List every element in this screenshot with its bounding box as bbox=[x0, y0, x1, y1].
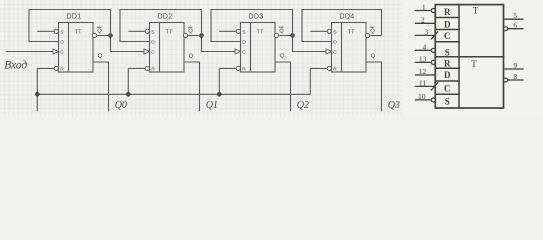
svg-text:C: C bbox=[151, 50, 155, 56]
svg-text:DD2: DD2 bbox=[158, 13, 173, 20]
output pin 8 wire bbox=[508, 79, 523, 81]
graph-paper background bbox=[0, 0, 543, 117]
Q output wire DD3 down to Q2 terminal bbox=[275, 62, 291, 111]
R input wire DD3 bbox=[219, 67, 236, 69]
S input inversion bubble DD2 bbox=[145, 29, 149, 33]
svg-text:3: 3 bbox=[424, 28, 428, 37]
D flip-flop DD2 bbox=[120, 10, 235, 112]
svg-text:Q: Q bbox=[97, 29, 102, 35]
S input stub wire DD4 bbox=[310, 30, 327, 32]
inverted output Q̄ bubble DD1 bbox=[92, 33, 96, 37]
S input stub wire DD3 bbox=[219, 30, 236, 32]
R wire down to reset bus DD1 bbox=[36, 68, 38, 111]
Q̄ output wire DD4 bbox=[370, 35, 381, 37]
svg-text:6: 6 bbox=[513, 21, 517, 30]
svg-text:T: T bbox=[471, 60, 477, 70]
svg-text:R: R bbox=[444, 7, 451, 17]
IC package symbol U1 (dual T flip-flop) bbox=[416, 3, 524, 108]
flip-flop body box DD3 bbox=[241, 23, 276, 73]
C dynamic input triangle DD2 bbox=[144, 49, 150, 54]
inverted output Q̄ bubble DD2 bbox=[183, 33, 187, 37]
svg-text:Q1: Q1 bbox=[206, 100, 218, 111]
svg-text:TT: TT bbox=[166, 29, 174, 35]
svg-text:Q2: Q2 bbox=[297, 100, 309, 111]
svg-text:4: 4 bbox=[422, 42, 426, 51]
feedback wire Q̄ to D (top loop) DD1 bbox=[29, 10, 111, 42]
svg-text:C: C bbox=[444, 31, 451, 41]
Q output wire DD1 down to Q0 terminal bbox=[93, 62, 109, 111]
svg-text:D: D bbox=[242, 40, 246, 46]
input pin 10 wire bbox=[416, 99, 434, 101]
svg-text:DD3: DD3 bbox=[249, 13, 264, 20]
svg-text:R: R bbox=[333, 67, 337, 73]
inverted output Q̄ bubble DD4 bbox=[365, 33, 369, 37]
pin-column divider DD1 bbox=[68, 23, 70, 73]
divider C2/S2 bbox=[435, 93, 459, 95]
C dynamic input triangle DD3 bbox=[235, 49, 241, 54]
IC section divider between T1 and T2 bbox=[435, 56, 503, 58]
input pin 1 inversion bubble bbox=[431, 9, 435, 13]
svg-text:C: C bbox=[333, 50, 337, 56]
divider R1/D1 bbox=[435, 17, 459, 19]
svg-text:1: 1 bbox=[422, 3, 426, 12]
wire Q̄ DD3 to C input DD4 bbox=[293, 36, 327, 52]
svg-text:S: S bbox=[445, 47, 450, 57]
svg-text:R: R bbox=[60, 67, 64, 73]
svg-text:Q: Q bbox=[98, 54, 103, 60]
input pin 13 wire bbox=[416, 61, 434, 63]
input pin 2 wire bbox=[416, 22, 436, 24]
svg-text:C: C bbox=[444, 83, 451, 93]
flip-flop body box DD2 bbox=[150, 23, 185, 73]
feedback wire Q̄ to D (top loop) DD4 bbox=[302, 10, 382, 42]
divider R2/D2 bbox=[435, 67, 459, 69]
input pin 1 wire bbox=[416, 10, 434, 12]
junction node DD3 Q̄ bbox=[290, 33, 295, 38]
input pin 4 wire bbox=[416, 49, 434, 51]
D flip-flop DD3 bbox=[211, 10, 326, 112]
R input inversion bubble DD4 bbox=[327, 66, 331, 70]
junction node DD1 Q̄ bbox=[108, 33, 113, 38]
reset bus junction node at DD3 bbox=[217, 92, 222, 97]
R input inversion bubble DD1 bbox=[54, 66, 58, 70]
svg-text:TT: TT bbox=[257, 29, 265, 35]
flip-flop body box DD4 bbox=[332, 23, 367, 73]
svg-text:5: 5 bbox=[513, 11, 517, 20]
svg-text:2: 2 bbox=[421, 15, 425, 24]
svg-text:Q: Q bbox=[371, 54, 376, 60]
svg-text:Q: Q bbox=[188, 29, 193, 35]
svg-text:Вход: Вход bbox=[4, 60, 27, 72]
input wire Вход to C of DD1 bbox=[6, 51, 53, 53]
svg-text:9: 9 bbox=[513, 61, 517, 70]
Q output wire DD4 down to Q3 terminal bbox=[366, 62, 382, 111]
svg-text:C: C bbox=[60, 50, 64, 56]
pin-column divider DD2 bbox=[159, 23, 161, 73]
svg-text:13: 13 bbox=[419, 55, 427, 64]
svg-text:12: 12 bbox=[419, 67, 427, 76]
svg-text:R: R bbox=[444, 58, 451, 68]
svg-text:D: D bbox=[333, 40, 337, 46]
S input inversion bubble DD4 bbox=[327, 29, 331, 33]
input pin 13 inversion bubble bbox=[431, 60, 435, 64]
R input wire DD2 bbox=[128, 67, 145, 69]
divider D2/C2 bbox=[435, 80, 459, 82]
svg-text:S: S bbox=[445, 97, 450, 107]
C dynamic input triangle DD1 bbox=[53, 49, 59, 54]
input pin 10 inversion bubble bbox=[431, 98, 435, 102]
divider D1/C1 bbox=[435, 29, 459, 31]
output pin 5 wire bbox=[504, 18, 524, 20]
common reset bus wire bbox=[37, 93, 310, 95]
divider C1/S1 bbox=[435, 41, 459, 43]
svg-text:Q3: Q3 bbox=[388, 100, 400, 111]
R wire down to reset bus DD2 bbox=[127, 68, 129, 94]
svg-text:R: R bbox=[151, 67, 155, 73]
R input wire DD4 bbox=[310, 67, 327, 69]
svg-text:D: D bbox=[444, 20, 451, 30]
R input inversion bubble DD3 bbox=[236, 66, 240, 70]
R wire down to reset bus DD4 bbox=[309, 68, 311, 94]
svg-text:TT: TT bbox=[75, 29, 83, 35]
input pin 3 wire bbox=[416, 34, 436, 36]
input pin 12 wire bbox=[416, 74, 436, 76]
svg-text:DD4: DD4 bbox=[340, 13, 355, 20]
input pin 11 dynamic-edge slash bbox=[431, 83, 437, 90]
junction node DD2 Q̄ bbox=[199, 33, 204, 38]
feedback wire Q̄ to D (top loop) DD3 bbox=[211, 10, 293, 42]
S input inversion bubble DD3 bbox=[236, 29, 240, 33]
input pin 3 dynamic-edge slash bbox=[431, 32, 437, 39]
svg-text:Q0: Q0 bbox=[115, 100, 127, 111]
pin-column divider DD3 bbox=[250, 23, 252, 73]
S input inversion bubble DD1 bbox=[54, 29, 58, 33]
reset bus junction node at DD1 bbox=[35, 92, 40, 97]
S input stub wire DD1 bbox=[37, 30, 54, 32]
svg-text:T: T bbox=[473, 7, 479, 17]
input pin 4 inversion bubble bbox=[431, 48, 435, 52]
wire Q̄ DD1 to C input DD2 bbox=[111, 36, 145, 52]
svg-text:D: D bbox=[60, 40, 64, 46]
Q̄ output wire DD1 bbox=[97, 35, 110, 37]
output pin 6 inversion bubble bbox=[504, 27, 508, 31]
inverted output Q̄ bubble DD3 bbox=[274, 33, 278, 37]
IC body box bbox=[435, 5, 503, 108]
Q̄ output wire DD3 bbox=[279, 35, 292, 37]
S input stub wire DD2 bbox=[128, 30, 145, 32]
svg-text:Q: Q bbox=[189, 54, 194, 60]
Q output wire DD2 down to Q1 terminal bbox=[184, 62, 200, 111]
C dynamic input triangle DD4 bbox=[326, 49, 332, 54]
output pin 6 wire bbox=[508, 28, 523, 30]
svg-text:C: C bbox=[242, 50, 246, 56]
svg-text:R: R bbox=[242, 67, 246, 73]
svg-text:10: 10 bbox=[418, 92, 426, 101]
svg-text:D: D bbox=[444, 70, 451, 80]
svg-text:Q: Q bbox=[279, 29, 284, 35]
svg-text:8: 8 bbox=[513, 72, 517, 81]
Q̄ output wire DD2 bbox=[188, 35, 201, 37]
output pin 9 wire bbox=[504, 68, 524, 70]
wire Q̄ DD2 to C input DD3 bbox=[202, 36, 236, 52]
input pin 11 wire bbox=[416, 85, 436, 87]
feedback wire Q̄ to D (top loop) DD2 bbox=[120, 10, 202, 42]
svg-text:D: D bbox=[151, 40, 155, 46]
pin-column divider DD4 bbox=[341, 23, 343, 73]
reset bus junction node at DD2 bbox=[126, 92, 131, 97]
R wire down to reset bus DD3 bbox=[218, 68, 220, 94]
R input inversion bubble DD2 bbox=[145, 66, 149, 70]
output pin 8 inversion bubble bbox=[504, 78, 508, 82]
svg-text:Q: Q bbox=[280, 54, 285, 60]
IC left pin-field divider bbox=[458, 5, 460, 108]
svg-text:DD1: DD1 bbox=[67, 13, 82, 20]
D flip-flop DD1 bbox=[29, 10, 144, 112]
svg-text:11: 11 bbox=[419, 79, 427, 88]
svg-text:Q: Q bbox=[370, 29, 375, 35]
D flip-flop DD4 bbox=[302, 10, 400, 112]
R input wire DD1 bbox=[37, 67, 54, 69]
svg-text:TT: TT bbox=[348, 29, 356, 35]
flip-flop body box DD1 bbox=[59, 23, 94, 73]
